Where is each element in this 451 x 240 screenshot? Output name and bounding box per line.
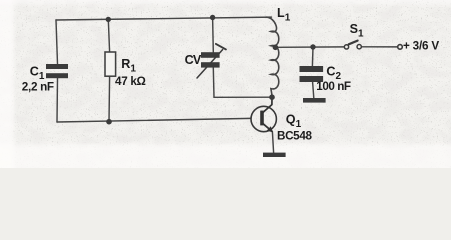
resistor R1 — [105, 52, 116, 76]
node: top rail / CV junction — [210, 15, 215, 20]
ground (C2) — [303, 98, 326, 103]
wire C2 top lead — [311, 47, 314, 66]
wire supply line — [276, 46, 344, 48]
wire CV-to-collector node — [214, 96, 272, 98]
wire S1 to terminal — [362, 46, 397, 48]
emitter line — [263, 123, 273, 131]
capacitor C2 — [300, 66, 324, 82]
node: top rail / R1 junction — [106, 17, 111, 22]
lighter clean margins (scan border) — [0, 0, 451, 174]
variable capacitor CV — [201, 52, 220, 67]
blotchy scan shading — [0, 0, 451, 168]
emitter arrowhead — [267, 126, 273, 132]
wire CV top lead — [212, 18, 215, 53]
ground (Q1 emitter) — [263, 153, 286, 157]
svg-text:+ 3/6 V: + 3/6 V — [403, 40, 439, 53]
terminal +3/6V — [398, 45, 403, 50]
wire R1 bottom lead — [108, 76, 111, 122]
inductor L1 — [266, 17, 279, 97]
wire C2 bottom lead — [313, 82, 314, 98]
wire top rail — [56, 17, 272, 20]
wire bottom rail (base line) — [57, 118, 251, 122]
speckle noise — [0, 0, 451, 168]
node: C2 tee — [310, 44, 315, 49]
wire R1 top lead — [108, 19, 109, 52]
svg-text:BC548: BC548 — [277, 129, 312, 142]
CV trimmer arrow — [197, 44, 226, 78]
wire Q1 emitter lead — [272, 132, 273, 153]
svg-text:CV: CV — [185, 53, 202, 67]
wire CV bottom lead — [212, 68, 215, 98]
node: bottom rail / R1 junction — [106, 119, 112, 125]
switch S1 — [344, 41, 361, 49]
svg-text:47 kΩ: 47 kΩ — [115, 75, 146, 88]
paper background — [0, 0, 451, 168]
transistor Q1 — [251, 97, 276, 132]
node: collector junction — [269, 94, 275, 100]
node: L1 tap — [273, 45, 279, 51]
capacitor C1 — [46, 64, 68, 78]
wire C1 bottom lead — [56, 78, 59, 122]
wire C1 top lead — [56, 20, 58, 64]
svg-text:2,2 nF: 2,2 nF — [22, 80, 54, 93]
collector line — [263, 97, 272, 113]
svg-text:100 nF: 100 nF — [316, 80, 351, 93]
